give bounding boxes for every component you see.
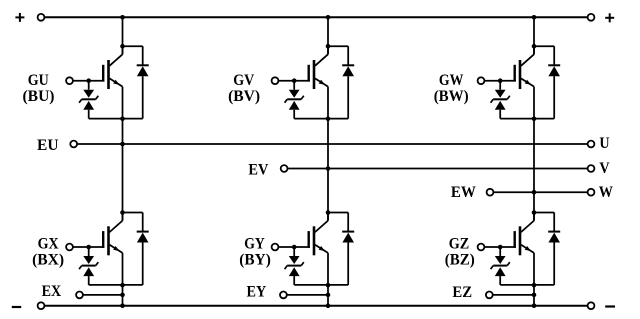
svg-text:EW: EW bbox=[451, 184, 476, 201]
svg-text:EX: EX bbox=[42, 283, 62, 300]
svg-text:(BZ): (BZ) bbox=[445, 252, 475, 269]
svg-text:EV: EV bbox=[248, 162, 269, 179]
svg-text:U: U bbox=[599, 135, 609, 152]
svg-text:GX: GX bbox=[38, 235, 60, 252]
svg-text:GV: GV bbox=[233, 72, 255, 89]
svg-text:EY: EY bbox=[247, 284, 267, 301]
svg-text:(BW): (BW) bbox=[434, 88, 469, 105]
svg-text:GY: GY bbox=[244, 235, 264, 252]
svg-text:GU: GU bbox=[28, 72, 49, 89]
svg-text:V: V bbox=[599, 160, 610, 177]
svg-text:(BU): (BU) bbox=[23, 88, 55, 105]
svg-text:(BY): (BY) bbox=[239, 252, 270, 269]
svg-text:GW: GW bbox=[439, 72, 464, 89]
svg-text:EU: EU bbox=[37, 137, 59, 154]
svg-text:EZ: EZ bbox=[452, 284, 472, 301]
svg-text:(BV): (BV) bbox=[228, 88, 260, 105]
svg-text:GZ: GZ bbox=[449, 235, 470, 252]
svg-text:W: W bbox=[599, 184, 614, 201]
svg-text:(BX): (BX) bbox=[32, 252, 64, 269]
